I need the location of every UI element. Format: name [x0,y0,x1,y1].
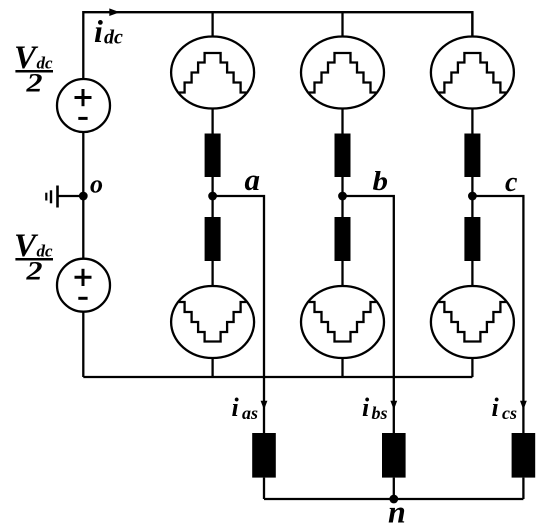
converter cell lower leg3 [431,286,514,358]
wire [471,358,473,377]
wire neutral rail [264,498,523,500]
node a [208,192,217,201]
svg-text:bs: bs [372,403,388,423]
svg-text:as: as [242,403,258,423]
label i_cs [492,393,518,423]
converter cell lower leg1 [171,286,254,358]
resistor leg3 lower [464,217,480,261]
wire [341,358,343,377]
converter cell lower leg2 [301,286,384,358]
svg-text:i: i [94,13,103,49]
wire [341,177,343,217]
label Vdc/2 lower [14,228,53,286]
resistor leg2 upper [335,134,351,178]
svg-text:n: n [388,494,406,527]
converter cell upper leg2 [301,37,384,109]
load resistor phase a [252,433,276,478]
voltage source V1 upper Vdc/2 [57,79,110,132]
svg-text:c: c [505,167,518,198]
node c [468,192,477,201]
load resistor phase b [382,433,406,478]
wire left branch lower [82,312,84,377]
svg-text:b: b [373,166,389,196]
wire [471,177,473,217]
wire [211,177,213,217]
wire [341,109,343,134]
wire leg3 stub [471,12,473,37]
node n [389,495,398,504]
wire [341,261,343,286]
resistor leg1 lower [205,217,221,261]
wire [211,109,213,134]
arrow i_as [261,401,268,410]
converter cell upper leg1 [171,37,254,109]
label Vdc/2 upper [14,40,53,98]
voltage source V2 lower Vdc/2 [57,259,110,312]
label i_dc [94,13,123,49]
svg-text:o: o [90,170,103,199]
wire [471,109,473,134]
svg-text:dc: dc [104,27,123,49]
resistor leg3 upper [464,134,480,178]
wire top rail [83,12,472,79]
converter cell upper leg3 [431,37,514,109]
wire [263,478,265,499]
resistor leg2 lower [335,217,351,261]
wire phase c [472,196,523,433]
wire left branch middle [82,132,84,259]
svg-text:2: 2 [25,69,42,98]
svg-text:i: i [492,393,500,422]
wire bottom rail [83,376,472,378]
svg-text:i: i [362,393,370,422]
label i_as [232,393,259,423]
wire [211,358,213,377]
wire [522,478,524,499]
load resistor phase c [512,433,536,478]
svg-text:a: a [245,162,261,197]
wire phase a [213,196,264,433]
wire [471,261,473,286]
arrow i_cs [520,401,527,410]
wire [211,261,213,286]
svg-text:i: i [232,393,240,422]
arrow i_dc direction [109,8,120,16]
wire leg2 stub [341,12,343,37]
wire phase b [343,196,394,433]
ground [46,186,83,208]
node o [79,192,88,201]
svg-text:2: 2 [25,257,42,286]
node b [338,192,347,201]
arrow i_bs [390,401,397,410]
resistor leg1 upper [205,134,221,178]
wire [393,478,395,499]
svg-text:cs: cs [502,403,517,423]
wire leg1 stub [211,12,213,37]
label i_bs [362,393,388,423]
